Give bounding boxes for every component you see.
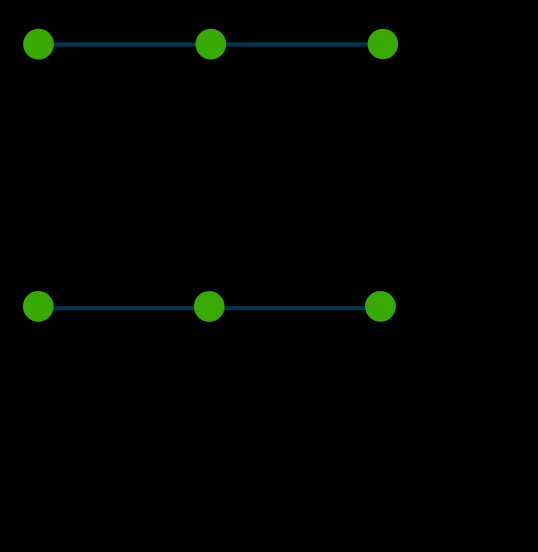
wire edge E2 (node D to node F, bottom row) xyxy=(38,306,380,310)
node F xyxy=(365,291,396,322)
node A xyxy=(23,29,54,60)
node E xyxy=(194,291,225,322)
node D xyxy=(23,291,54,322)
node B xyxy=(195,29,226,60)
node C xyxy=(368,29,399,60)
wire edge E1 (node A to node C, top row) xyxy=(39,42,383,46)
